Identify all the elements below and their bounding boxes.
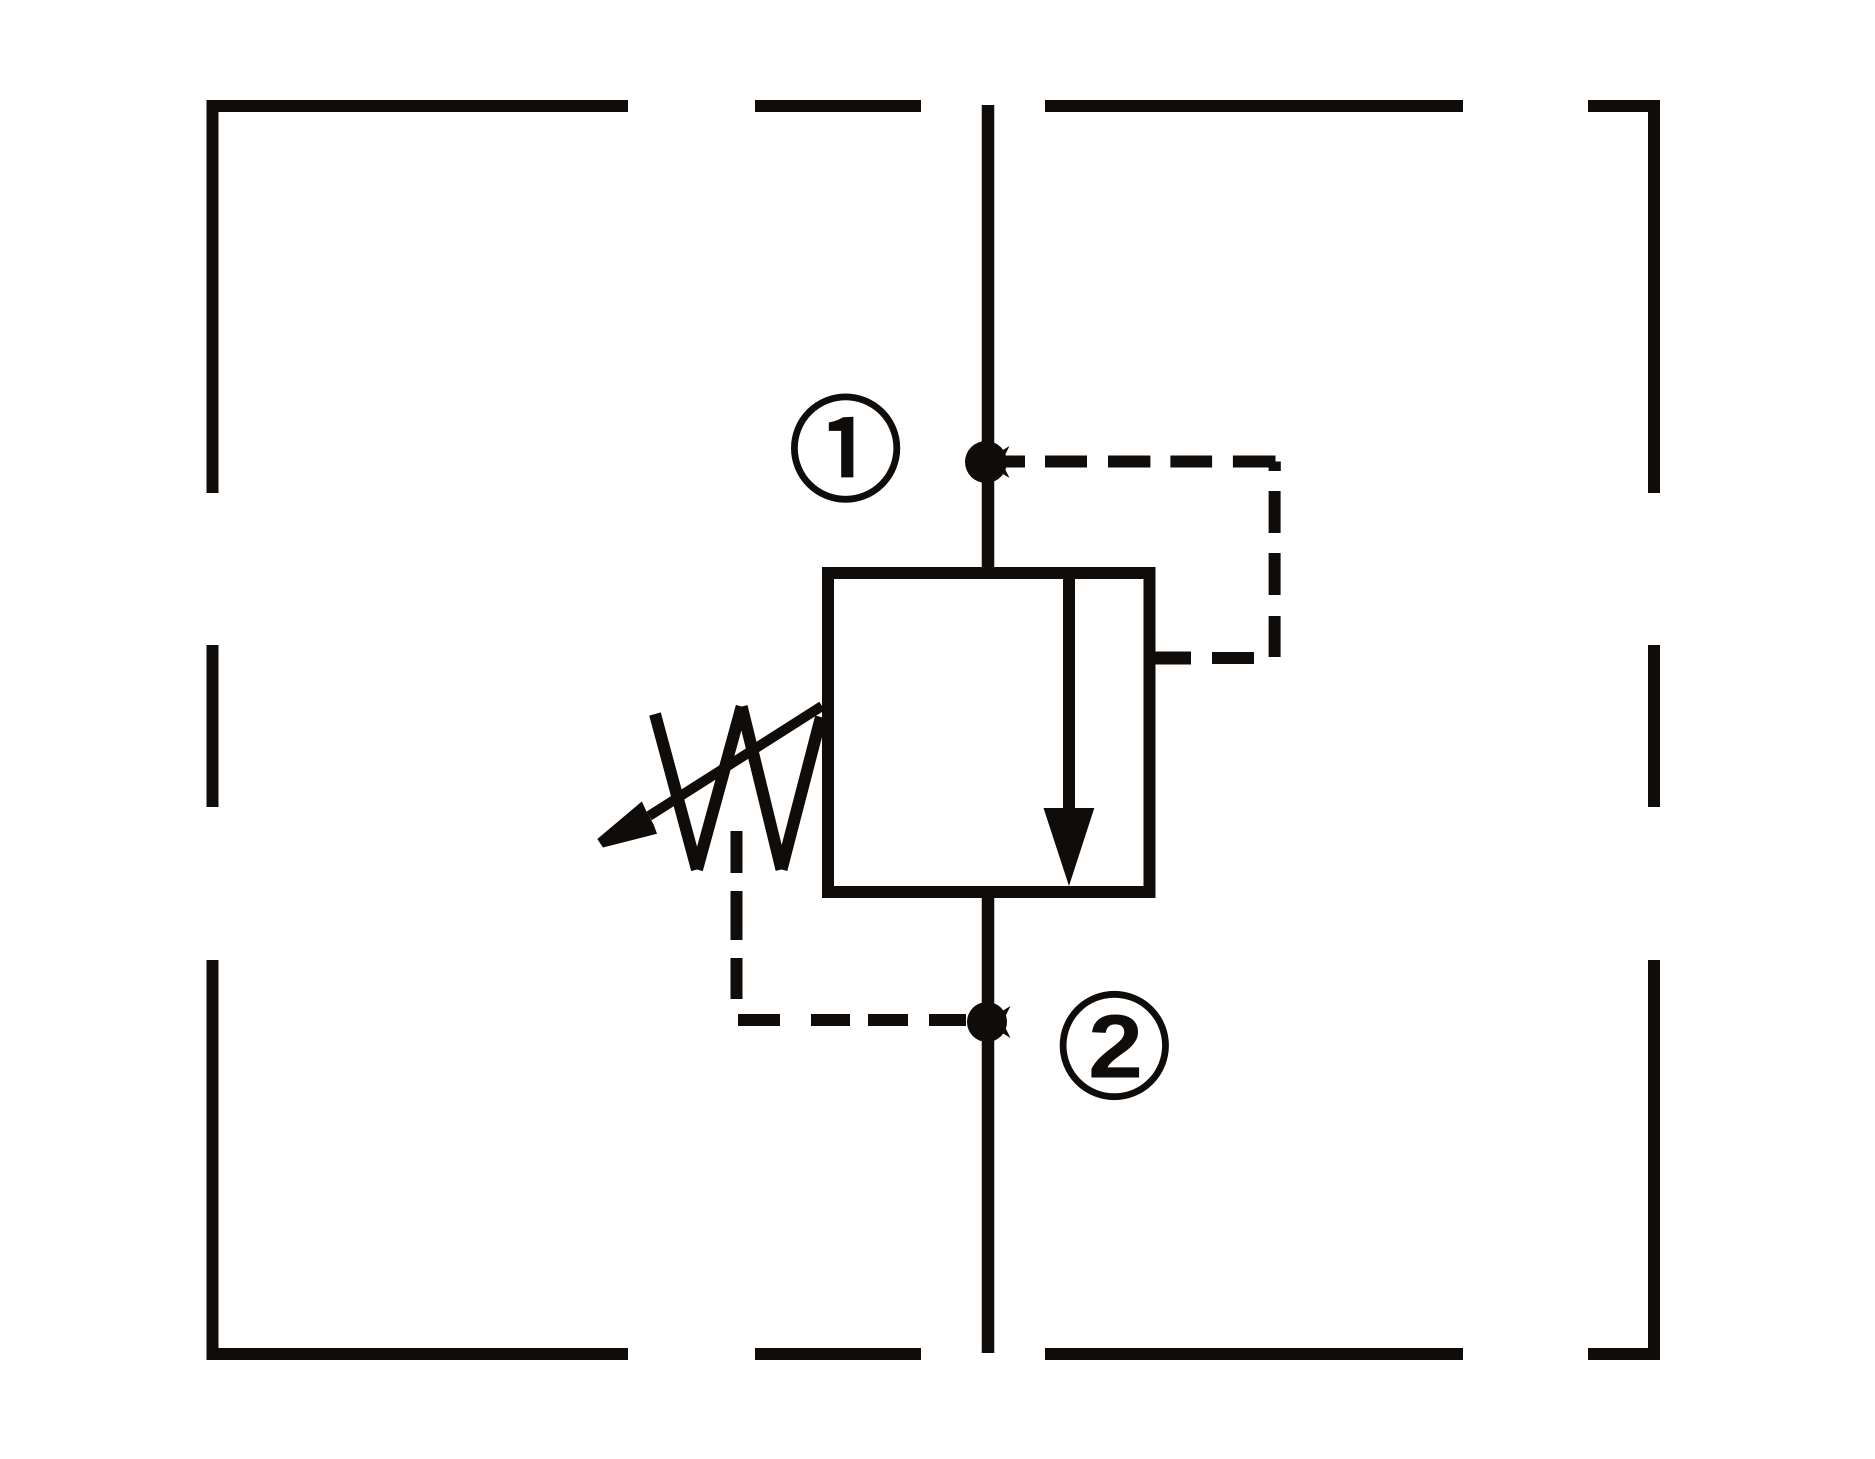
- valve body box: [828, 573, 1150, 892]
- pilot dashed horizontal into valve right stub: [1212, 652, 1254, 664]
- label "2": [1088, 997, 1143, 1098]
- dashed enclosure border: right edge: [1648, 100, 1660, 1360]
- dashed enclosure border: left edge: [207, 100, 219, 1360]
- flow path arrow shaft inside valve: [1063, 567, 1075, 812]
- pilot dashed vertical line below spring: [731, 831, 743, 999]
- pilot dashed line from node 1 going right: [999, 456, 1276, 468]
- pilot dashed vertical line on right: [1269, 491, 1281, 657]
- port label circle 1 outline: [794, 397, 896, 499]
- port label circle 2 outline: [1063, 994, 1165, 1096]
- pilot stub on right side of valve: [1150, 652, 1192, 665]
- wire: main vertical line lower segment (port 2 line): [982, 892, 995, 1353]
- node 2 junction dot: [967, 1002, 1007, 1042]
- flow path arrowhead inside valve: [1044, 808, 1095, 886]
- wire: main vertical line upper segment (port 1 line): [982, 105, 995, 573]
- dashed enclosure border: top edge: [207, 100, 1660, 112]
- spring (zigzag) on left of valve: [655, 707, 821, 870]
- label "1" (drawn as path, Arial-style no-foot digit): [829, 417, 854, 478]
- svg-text:2: 2: [1088, 997, 1143, 1098]
- adjustment arrowhead: [597, 801, 657, 847]
- node 1 tick marks: [998, 446, 1010, 457]
- adjustment arrow shaft crossing spring: [649, 706, 822, 816]
- node 2 tick marks: [999, 1006, 1011, 1017]
- node 1 junction dot: [965, 441, 1007, 483]
- dashed enclosure border: bottom edge: [207, 1348, 1660, 1360]
- pilot dashed horizontal line to node 2: [738, 1014, 966, 1026]
- pilot dashed line corner step: [1269, 462, 1281, 472]
